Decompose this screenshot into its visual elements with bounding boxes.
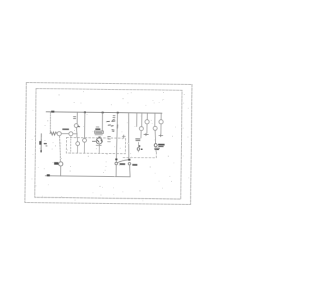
label timer left column (113, 116, 115, 118)
terminal tick T2 (144, 133, 148, 136)
motor M1 lead left (92, 140, 95, 142)
lamp L3 (69, 132, 73, 136)
resistor R1 (50, 132, 57, 135)
label timer text faint (96, 126, 99, 128)
wire drop x77 (76, 112, 78, 123)
wire lamp L4 to box bottom (77, 146, 79, 153)
motor M1 base arc (96, 144, 101, 147)
wire drop x102 (101, 113, 103, 131)
wire drop x128.3 (128, 113, 129, 159)
label inside block (96, 131, 102, 133)
overload protector P1 (74, 124, 78, 128)
wire drop x84.5 (84, 112, 86, 138)
lamp L4 (76, 142, 80, 146)
label protector tick (78, 125, 80, 128)
label heater right second (158, 146, 163, 147)
label sensor tiny (46, 145, 47, 147)
sensor bulb B1 tip (40, 150, 41, 152)
connector J1 (59, 162, 63, 166)
defrost thermostat S3 side dot (141, 149, 143, 150)
label door switch right (132, 164, 137, 166)
dashed wire link to heater (123, 151, 156, 157)
defrost thermostat S3 contact (137, 148, 140, 151)
door switch S2 blade (117, 160, 128, 163)
label timer text dark (95, 128, 100, 129)
door switch S2 terminals (115, 162, 118, 165)
terminal tick T3 (159, 134, 163, 137)
node N terminal blob (47, 174, 50, 176)
node bus junction B (102, 112, 104, 114)
dashed freezer compartment box (66, 137, 125, 153)
wire lamp L2 drop (59, 136, 60, 162)
label connector (54, 162, 58, 165)
wire lamp L9 stub (160, 124, 162, 134)
wire lamp L8 down (154, 131, 157, 144)
wire top supply bus L1 (46, 112, 162, 113)
label under block (95, 134, 102, 136)
label sensor dash (44, 143, 46, 145)
door switch S2 left contact blob (115, 158, 117, 160)
lamp L2 (57, 132, 61, 136)
node bus junction A (84, 111, 86, 113)
wire drop x154.6 (154, 113, 156, 126)
wire drop x147 (146, 113, 148, 119)
label motor terminals (108, 136, 111, 141)
lamp L9 (159, 120, 163, 124)
motor M1 cap blob (98, 137, 100, 138)
wire chain to right (73, 133, 77, 135)
label lamp chain value (62, 128, 69, 130)
wire lamp L7 stub (146, 124, 148, 133)
wire motor to box bottom (98, 144, 100, 153)
sensor bulb B1 blob (39, 141, 41, 145)
wire drop x117 to door switch (116, 113, 117, 162)
lamp L5 (83, 138, 87, 142)
label X (73, 117, 75, 119)
wire lamp L3 drop (70, 136, 72, 153)
motor M1 (96, 138, 102, 144)
label heater right dark (158, 144, 164, 146)
label heater below (155, 148, 160, 149)
wire heater down (155, 147, 157, 152)
lamp L6 (139, 127, 143, 131)
sensor bulb B1 line (40, 134, 42, 152)
wire bottom neutral bus N (45, 176, 130, 177)
terminal block TB1 (95, 131, 104, 134)
wire drop to lamp chain (49, 112, 51, 134)
wire switch left to bottom bus (115, 165, 117, 177)
label door switch left (120, 163, 126, 165)
wire chain link (62, 133, 69, 135)
wire switch right to bottom bus (129, 165, 132, 177)
node bus label blob (51, 111, 54, 113)
scan speckles (46, 94, 169, 191)
wire thermostat stub (137, 142, 139, 152)
wire drop x141.5 (141, 113, 143, 126)
wire drop x160.8 bus end (160, 113, 162, 119)
defrost timer contacts S1 (107, 119, 118, 131)
defrost thermostat S3 label (136, 139, 140, 141)
defrost thermostat S3 dot (138, 145, 140, 147)
wire connector to bottom bus (60, 166, 62, 176)
wire stub x136.5 (136, 113, 138, 127)
scan noise (32, 91, 190, 201)
wire lamp L5 to box bottom (83, 142, 85, 153)
motor M1 brushes (97, 140, 102, 142)
lamp L7 (145, 120, 149, 124)
wire lamp L6 down (140, 131, 142, 138)
defrost heater H1 bulb (154, 144, 157, 147)
lamp L8 (153, 126, 157, 130)
wire protector to chain (75, 128, 78, 138)
node bus junction C (117, 112, 119, 114)
wire into box x77.5 (76, 138, 78, 142)
label plus (122, 135, 125, 138)
door switch S2 pivot blob (128, 159, 130, 161)
